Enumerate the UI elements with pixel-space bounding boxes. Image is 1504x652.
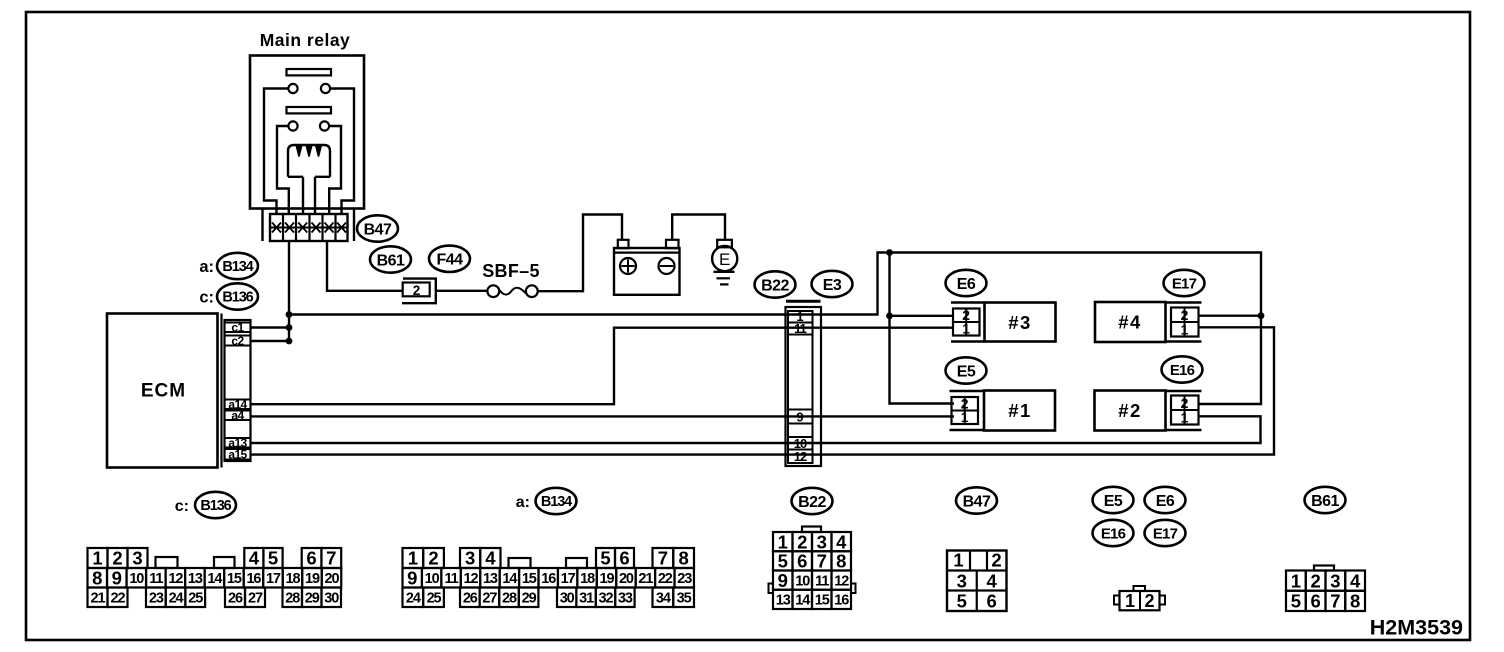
relay wire terminal2 to pin6 (330, 89, 354, 216)
svg-text:4: 4 (485, 548, 496, 569)
relay wire terminal1 to pin1 (264, 89, 288, 216)
svg-text:33: 33 (618, 590, 633, 606)
svg-text:29: 29 (522, 590, 537, 606)
svg-text:8: 8 (92, 567, 102, 588)
svg-text:E6: E6 (957, 276, 976, 293)
junction injector4 feed (1258, 312, 1265, 319)
svg-text:8: 8 (678, 548, 688, 569)
svg-text:a4: a4 (231, 409, 244, 423)
svg-text:15: 15 (227, 571, 242, 587)
battery positive terminal (618, 240, 629, 248)
svg-text:B22: B22 (761, 277, 789, 294)
svg-text:4: 4 (249, 548, 260, 569)
fuse SBF-5 (487, 285, 499, 297)
wire ECM c1 to junction (251, 326, 290, 328)
svg-text:27: 27 (248, 590, 263, 606)
connector label oval F44 (429, 246, 470, 272)
injector #3 connector E6 (951, 301, 985, 304)
svg-text:1: 1 (962, 321, 970, 337)
svg-text:13: 13 (776, 593, 791, 609)
svg-text:1: 1 (778, 531, 788, 552)
svg-text:B136: B136 (200, 498, 231, 514)
svg-text:B22: B22 (798, 494, 826, 511)
svg-text:c:: c: (175, 498, 189, 515)
svg-text:Main relay: Main relay (260, 30, 351, 50)
svg-text:16: 16 (246, 571, 261, 587)
svg-text:27: 27 (482, 590, 497, 606)
svg-text:15: 15 (815, 593, 830, 609)
relay wire terminal4 to pin5 (329, 126, 341, 215)
connector pinout B47 (6-pin) (947, 551, 1007, 612)
svg-text:1: 1 (1125, 591, 1135, 611)
svg-text:3: 3 (1330, 570, 1340, 591)
svg-text:c2: c2 (231, 334, 244, 348)
wire battery negative to ground (672, 215, 725, 240)
svg-text:6: 6 (986, 591, 996, 612)
svg-text:2: 2 (1310, 570, 1320, 591)
svg-text:19: 19 (600, 571, 615, 587)
relay housing edge right (353, 209, 355, 242)
svg-text:1: 1 (1291, 570, 1301, 591)
svg-text:#2: #2 (1118, 400, 1142, 421)
svg-text:6: 6 (619, 548, 629, 569)
svg-text:21: 21 (91, 590, 106, 606)
svg-text:1: 1 (408, 548, 418, 569)
svg-text:8: 8 (1350, 591, 1360, 612)
svg-text:E6: E6 (1156, 493, 1175, 510)
wire power branch to injector3 pin2 (890, 315, 954, 317)
svg-text:9: 9 (778, 570, 788, 591)
wire ECM a13 to injector2 pin1 (251, 416, 1261, 443)
svg-text:15: 15 (522, 571, 537, 587)
svg-text:1: 1 (961, 409, 969, 425)
svg-text:#4: #4 (1118, 312, 1142, 333)
svg-text:E5: E5 (1104, 493, 1123, 510)
injector #4 body (1095, 302, 1166, 342)
svg-text:18: 18 (285, 571, 300, 587)
svg-text:29: 29 (305, 590, 320, 606)
wire ECM a15 to injector4 pin1 (251, 327, 1275, 454)
injector #4 connector E17 (1166, 301, 1202, 304)
svg-text:28: 28 (285, 590, 300, 606)
svg-text:ECM: ECM (141, 381, 186, 402)
junction c2 (286, 338, 293, 345)
svg-text:10: 10 (795, 573, 810, 589)
ECM connector edge (220, 314, 222, 468)
svg-text:a15: a15 (228, 448, 247, 462)
connector label oval E5 (top) (946, 357, 987, 383)
connector pinout E5/E6/E16/E17 (2-pin) (1134, 586, 1146, 591)
relay coil leg 2 (314, 177, 316, 215)
battery plus symbol (620, 258, 636, 274)
battery negative terminal (666, 240, 679, 248)
svg-text:B61: B61 (1311, 493, 1339, 510)
connector pinout c:B136 (ECM 30-pin) (88, 548, 108, 568)
relay terminal circle 2 (321, 84, 330, 93)
svg-text:12: 12 (168, 571, 183, 587)
svg-text:21: 21 (638, 571, 653, 587)
wire ECM c2 to junction (251, 340, 290, 342)
svg-text:7: 7 (658, 548, 668, 569)
svg-text:16: 16 (834, 593, 849, 609)
relay terminal circle 1 (288, 84, 297, 93)
svg-text:5: 5 (1291, 591, 1301, 612)
svg-text:17: 17 (266, 571, 281, 587)
relay coil leg 1 (302, 177, 304, 215)
svg-text:c:: c: (199, 289, 214, 307)
svg-text:4: 4 (1350, 570, 1361, 591)
connector label oval B47 (357, 215, 398, 241)
injector #3 body (985, 303, 1056, 342)
connector label oval B61 (370, 246, 411, 272)
svg-text:5: 5 (957, 591, 967, 612)
svg-text:B61: B61 (377, 252, 405, 269)
connector label oval E17 (bottom) (1145, 520, 1186, 546)
relay wire terminal3 to pin2 (277, 126, 289, 215)
svg-text:26: 26 (228, 590, 243, 606)
svg-text:25: 25 (188, 590, 203, 606)
svg-text:E5: E5 (957, 363, 976, 380)
svg-text:16: 16 (541, 571, 556, 587)
svg-text:23: 23 (149, 590, 164, 606)
connector label oval E16 (bottom) (1093, 520, 1134, 546)
connector pinout a:B134 (ECM 35-pin) (403, 548, 424, 568)
svg-text:14: 14 (207, 571, 222, 587)
svg-text:2: 2 (991, 550, 1001, 571)
wire ECM a4 to injector1 pin1 (251, 415, 955, 417)
svg-text:E17: E17 (1153, 525, 1178, 542)
relay coil (288, 145, 330, 177)
svg-text:B134: B134 (222, 259, 253, 275)
relay contact bar lower (287, 107, 332, 113)
svg-text:3: 3 (132, 548, 142, 569)
wire power branch to injector4 pin2 (1199, 315, 1262, 317)
svg-text:13: 13 (188, 571, 203, 587)
svg-text:11: 11 (815, 573, 829, 589)
battery body (614, 248, 680, 295)
svg-text:32: 32 (599, 590, 614, 606)
junction top rail (886, 249, 893, 256)
connector pinout B22 (16-pin) (802, 527, 821, 533)
ECM connector strip pins c1 c2 a14 a4 a13 a15 (225, 320, 251, 461)
svg-text:20: 20 (619, 571, 634, 587)
svg-text:1: 1 (1181, 409, 1189, 425)
connector pinout B61 (8-pin) (1314, 566, 1334, 571)
svg-text:a:: a: (199, 258, 214, 276)
svg-text:B47: B47 (963, 493, 991, 510)
svg-text:#1: #1 (1008, 400, 1032, 421)
svg-text:30: 30 (560, 590, 575, 606)
svg-text:1: 1 (953, 550, 963, 571)
injector #1 body (984, 391, 1055, 431)
svg-text:22: 22 (658, 571, 673, 587)
svg-text:1: 1 (1181, 321, 1189, 337)
connector label oval E6 (bottom) (1145, 487, 1186, 513)
relay terminal circle 3 (288, 121, 297, 130)
connector strip B47 under relay (hatched terminals) (270, 214, 348, 241)
svg-text:13: 13 (483, 571, 498, 587)
svg-text:E16: E16 (1170, 362, 1195, 379)
svg-text:7: 7 (1330, 591, 1340, 612)
svg-text:14: 14 (795, 593, 810, 609)
junction c1 (286, 324, 293, 331)
connector label oval E6 (top) (946, 270, 987, 296)
svg-text:2: 2 (1144, 591, 1154, 611)
battery minus symbol (659, 258, 675, 274)
relay Main relay box (250, 56, 364, 209)
svg-text:SBF–5: SBF–5 (482, 261, 540, 281)
svg-text:25: 25 (427, 590, 442, 606)
connector label oval E17 (top) (1164, 270, 1205, 296)
svg-text:4: 4 (836, 531, 847, 552)
svg-text:B47: B47 (364, 221, 392, 238)
svg-text:35: 35 (677, 590, 692, 606)
wire relay pin to fuse box F44 (327, 241, 403, 291)
svg-text:24: 24 (406, 590, 421, 606)
svg-text:30: 30 (324, 590, 339, 606)
junction main feed (286, 311, 293, 318)
svg-text:19: 19 (305, 571, 320, 587)
svg-text:11: 11 (149, 571, 163, 587)
svg-text:14: 14 (502, 571, 517, 587)
svg-text:3: 3 (817, 531, 827, 552)
svg-text:1: 1 (92, 548, 102, 569)
svg-text:7: 7 (817, 551, 827, 572)
svg-text:26: 26 (463, 590, 478, 606)
svg-text:31: 31 (579, 590, 594, 606)
svg-text:12: 12 (464, 571, 479, 587)
svg-text:3: 3 (957, 571, 967, 592)
svg-text:9: 9 (112, 567, 122, 588)
svg-text:2: 2 (797, 531, 807, 552)
wire F44 to fuse SBF-5 (436, 290, 488, 292)
connector label oval E16 (top) (1162, 356, 1203, 382)
svg-text:22: 22 (111, 590, 126, 606)
svg-text:24: 24 (169, 590, 184, 606)
svg-text:9: 9 (796, 409, 803, 424)
svg-text:6: 6 (1310, 591, 1320, 612)
svg-text:10: 10 (425, 571, 440, 587)
svg-text:18: 18 (580, 571, 595, 587)
injector #2 connector E16 (1166, 390, 1202, 393)
wire main feed to B22 pin1 and up to top rail (289, 253, 1261, 405)
svg-text:34: 34 (656, 590, 671, 606)
connector label oval B47 (pinout) (956, 487, 997, 513)
connector label oval B61 (pinout) (1305, 487, 1346, 513)
svg-text:10: 10 (129, 571, 144, 587)
svg-text:3: 3 (465, 548, 475, 569)
svg-text:B136: B136 (222, 290, 253, 306)
wire ECM a14 to injector3 pin1 (251, 328, 954, 405)
svg-text:23: 23 (677, 571, 692, 587)
connector B22/E3 inline strip pins 1 11 9 10 12 (786, 300, 821, 303)
svg-text:9: 9 (407, 567, 417, 588)
svg-text:#3: #3 (1008, 312, 1032, 333)
junction injector3 feed (886, 312, 893, 319)
ground E (717, 240, 732, 248)
svg-text:5: 5 (600, 548, 610, 569)
connector label oval E5 (bottom) (1093, 487, 1134, 513)
svg-text:B134: B134 (541, 494, 572, 510)
connector label oval E3 (812, 271, 853, 297)
svg-text:E17: E17 (1172, 275, 1197, 292)
injector #2 body (1095, 391, 1166, 431)
svg-text:2: 2 (112, 548, 122, 569)
svg-text:c1: c1 (231, 321, 244, 335)
svg-text:12: 12 (834, 573, 849, 589)
svg-text:a:: a: (516, 494, 530, 511)
svg-text:E3: E3 (823, 277, 842, 294)
connector label oval B22 (pinout) (792, 488, 833, 514)
relay housing edge left (261, 209, 263, 242)
connector label oval B22 (top) (755, 271, 796, 297)
svg-text:2: 2 (413, 283, 421, 298)
svg-text:4: 4 (986, 571, 997, 592)
svg-text:17: 17 (561, 571, 576, 587)
svg-text:F44: F44 (436, 252, 463, 269)
svg-text:11: 11 (794, 321, 807, 336)
svg-text:20: 20 (325, 571, 340, 587)
svg-text:7: 7 (326, 548, 336, 569)
svg-text:8: 8 (836, 551, 846, 572)
svg-text:6: 6 (797, 551, 807, 572)
connector F44 pin-2 box (402, 279, 436, 304)
svg-text:11: 11 (445, 571, 459, 587)
svg-text:12: 12 (794, 449, 807, 464)
svg-text:5: 5 (268, 548, 278, 569)
svg-text:5: 5 (778, 551, 788, 572)
svg-text:28: 28 (502, 590, 517, 606)
svg-text:6: 6 (306, 548, 316, 569)
relay terminal circle 4 (320, 121, 329, 130)
svg-text:E: E (719, 250, 730, 269)
wire relay pin to junction column (288, 241, 290, 341)
svg-text:E16: E16 (1101, 525, 1126, 542)
ECM box (107, 314, 218, 468)
svg-text:2: 2 (428, 548, 438, 569)
wire power branch down left (890, 253, 955, 404)
wire fuse to battery positive (538, 215, 622, 292)
relay contact bar upper (287, 69, 332, 75)
svg-text:H2M3539: H2M3539 (1370, 616, 1463, 640)
injector #1 connector E5 (950, 390, 985, 393)
